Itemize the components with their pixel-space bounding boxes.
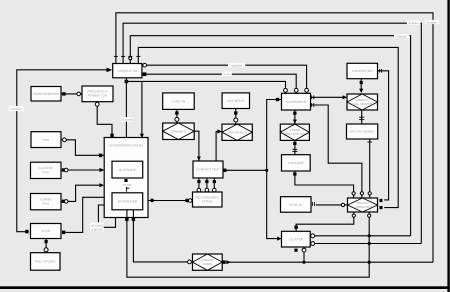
node square at avgn left input — [25, 230, 28, 234]
box CONSUME B14 — [282, 155, 311, 171]
wire governor left y205 to label loop into governor bottom — [98, 205, 106, 222]
circle at big diamond bottom pin2 — [368, 214, 371, 217]
wire cluster out1 (y235.8) to x410.6 rail — [310, 235, 410, 237]
box AVGN B6 — [31, 224, 62, 239]
square pin at pwumw right — [222, 260, 225, 264]
wire suspend left (y99.5) down rail x266.7 to cluster — [267, 100, 282, 239]
wire avgn bottom to pwl box — [45, 239, 47, 253]
circle at PSS right — [63, 138, 67, 142]
box STARTUP VN B8 — [113, 64, 142, 78]
svg-text:COMPACT TEST: COMPACT TEST — [196, 168, 220, 172]
circle at big diamond top pin3 — [368, 192, 371, 195]
label chip on feedback line1 — [425, 20, 440, 24]
arrow into governor top — [140, 134, 144, 139]
diamond VNX-GR-EL-D D2 — [222, 124, 252, 140]
wire top feedback 2 (y23: startup pin2 to x421 down to y243.5) — [123, 23, 421, 243]
wire suspend out1 (y97.3) to compact diamond left — [311, 96, 344, 98]
wire top feedback 3 (y36: startup pin3 to x410.6 down to y235.8) — [130, 36, 410, 236]
square pin at startup right out2 — [143, 72, 147, 76]
box PWRN DEMANDS B1 — [31, 87, 61, 102]
svg-text:CONTENT BIN: CONTENT BIN — [352, 69, 373, 73]
circle connector above governor inner box1 — [125, 156, 129, 160]
svg-text:STARTUP VN: STARTUP VN — [118, 69, 137, 73]
label chip a vn — [222, 72, 232, 76]
label chip PID added / pid NT — [90, 223, 104, 232]
box PID GAINS B16 — [193, 192, 223, 207]
label chip vcontrols (on x126.4 wire) — [120, 117, 133, 122]
circle at big diamond top pin2 — [360, 192, 363, 195]
box CLUSTER B18 — [282, 231, 311, 247]
wire suspend bottom to wait diamond — [294, 110, 296, 124]
circle connector on startup top pin3 — [129, 57, 132, 60]
wire consume bottom to big diamond top pin1 (y185) — [295, 171, 354, 198]
box governor inner IN STROKE — [112, 161, 143, 178]
box COMPACT TEST B15 — [193, 161, 223, 178]
svg-text:RVS: RVS — [43, 170, 49, 174]
svg-text:SUSPEND/CN: SUSPEND/CN — [286, 100, 306, 104]
junction dot y235.8/x369 — [368, 234, 371, 237]
svg-text:WAIT WTN GO: WAIT WTN GO — [285, 132, 306, 136]
wire lgrwn-pwu to governor (y201 up to y185) — [61, 185, 101, 201]
right window border — [447, 0, 449, 292]
circle connector at startup right out1 — [143, 63, 147, 67]
circle at freq box bottom — [95, 102, 99, 106]
wire cluster-rvs to governor (y170) — [61, 169, 101, 171]
box SUSPEND CONS B11 — [282, 93, 311, 110]
box CONTENT BIN B12 — [347, 63, 378, 78]
box FREQUENCY/POWER CON B2 — [82, 86, 113, 102]
wire suspend out2 (y105) jog to big diamond top pin2 — [311, 105, 362, 198]
svg-text:& pid NT: & pid NT — [91, 227, 102, 231]
svg-text:POWER CON: POWER CON — [88, 94, 107, 98]
svg-text:VNX SETUP: VNX SETUP — [227, 99, 245, 103]
svg-text:AVGN: AVGN — [41, 229, 50, 233]
diamond VN WAIT FOR WTN GO D3 — [280, 124, 309, 140]
big diamond right pin squares — [380, 199, 383, 202]
wire drop from y81.4 into governor top — [141, 81, 143, 134]
junction square under startup — [125, 80, 129, 83]
wire startup out2 (a vn, y74 to suspend top pin2) — [146, 74, 296, 93]
wire governor bottom pin1 to big diamond bottom (y277 loop) — [127, 212, 369, 277]
svg-text:CLUSTER: CLUSTER — [289, 238, 304, 242]
node square between governor inner boxes — [124, 179, 127, 182]
square pin at governor left y155 — [99, 154, 102, 158]
wire vote4u out to big diamond left pin — [316, 204, 348, 206]
wire content-bin out right down x388.6 to big diamond right pin1 — [378, 71, 389, 200]
wire content-bin bottom into compact diamond top — [360, 79, 362, 92]
wire compact-test out right to x266.7 rail — [225, 169, 266, 171]
circle at big diamond left pin — [341, 203, 344, 206]
box CLUSTER RVS B4 — [31, 162, 62, 178]
wire top feedback 4 (y47.5: startup pin4 to x398 down to diamond right pin2) — [138, 47, 398, 207]
diamond PWUMW CUMW D6 — [193, 254, 223, 270]
svg-text:CONSUME: CONSUME — [288, 161, 304, 165]
wire avgn right up into governor left (y197) — [65, 197, 107, 232]
svg-text:GOVERNOR/RV MODEL: GOVERNOR/RV MODEL — [108, 143, 143, 147]
box governor inner VN NODES — [112, 193, 143, 210]
wire left rail (x17 from y69.5 into startup + down to avgn) — [17, 70, 107, 232]
stubs from inner box2 to governor bottom — [126, 210, 128, 218]
arrow into cluster left — [277, 237, 281, 241]
label chip on feedback line3 — [394, 34, 410, 38]
circle at box2 left — [77, 92, 81, 96]
label chip combine (on left rail) — [9, 106, 24, 111]
diamond MTN GO D5 — [348, 198, 378, 212]
svg-text:CUMW: CUMW — [203, 262, 213, 266]
wire cluster out2 (y243.5) to x421.3 rail — [310, 243, 421, 245]
square pin on cluster bottom — [294, 249, 297, 252]
svg-text:regulator: regulator — [231, 63, 242, 67]
svg-text:s-swine: s-swine — [409, 21, 419, 25]
svg-text:vcontrols: vcontrols — [121, 118, 133, 122]
svg-text:PWL STROKN: PWL STROKN — [35, 260, 55, 264]
wire startup bottom pin down to governor inner box — [125, 78, 127, 161]
svg-text:VN FINISHED: VN FINISHED — [117, 200, 137, 204]
label chip regulator — [228, 63, 245, 67]
circle pin inside governor bottom — [114, 212, 117, 215]
wire load-vn pin down to diamond a — [176, 109, 178, 123]
wire label to governor bottom — [104, 218, 116, 228]
box VOTE 4U B17 — [281, 197, 312, 213]
svg-text:a vn: a vn — [224, 72, 230, 76]
svg-text:PWU: PWU — [42, 202, 49, 206]
wire wait-diamond bottom to consume — [294, 140, 296, 154]
wire PSS to governor (y139 jog y155.5) — [61, 140, 104, 156]
circle at pwumw diamond left — [188, 260, 192, 264]
wire box1 to box2 (y94) — [61, 93, 82, 95]
wire cluster bottom circle down to y262 — [303, 247, 305, 262]
square pin inside governor y197 — [107, 196, 110, 199]
svg-text:swines: swines — [397, 34, 406, 38]
wire vnx-setup pin down to vnx diamond — [235, 109, 237, 125]
svg-text:b swine: b swine — [427, 20, 437, 24]
svg-text:combine: combine — [11, 107, 22, 111]
box LGRWN PWU B5 — [31, 194, 62, 210]
svg-text:LOAD VN: LOAD VN — [172, 99, 186, 103]
svg-text:IN STROKE: IN STROKE — [119, 168, 136, 172]
box GOVERNOR outer B19 — [104, 138, 148, 218]
tick marks on startup top pins — [114, 55, 118, 57]
box PWL STROKN B7 — [31, 253, 61, 271]
wire diamond-a out right down into compact test top — [194, 131, 199, 161]
wire pwumw out right (y262) to x433 rail — [226, 261, 433, 263]
square pin at box1 right — [62, 92, 65, 95]
diamond COMPACT NON-CALL SRV D4 — [347, 94, 378, 110]
bottom window border bar — [0, 286, 450, 289]
wire top feedback 1 (y13: startup pin1 to x433 down to y262) — [116, 13, 433, 262]
arrow into governor left y185 — [100, 183, 105, 187]
arrow into startup left — [107, 68, 113, 73]
wire freq box bottom to governor top — [97, 105, 112, 138]
arrow into governor left y170 — [100, 168, 105, 172]
arrow on pwumw out wire — [226, 260, 231, 264]
svg-text:PWRN DEMANDS: PWRN DEMANDS — [33, 92, 59, 96]
square at governor top entry — [110, 134, 113, 137]
junction dot y243.5/x369 — [368, 242, 371, 245]
square+circle at PID box left — [185, 199, 188, 202]
circle pins on suspend box top — [284, 88, 288, 92]
junction dot x266.7/y170.3 — [265, 169, 268, 172]
box VNX SETUP B10 — [222, 93, 249, 109]
hook mark inside governor — [127, 187, 130, 192]
svg-text:XXX VN CONSEC: XXX VN CONSEC — [349, 130, 375, 134]
wire compact diamond bottom to consec box — [361, 110, 363, 124]
circle at big diamond top pin1 — [352, 192, 355, 195]
box LOAD VN B9 — [163, 93, 195, 110]
wire startup out1 (regulator, y65 to suspend top pin3) — [147, 65, 307, 93]
label chip on feedback line2 — [407, 21, 421, 25]
box XXX VN CONSEC B13 — [347, 124, 378, 139]
circle pin inside governor y205 — [107, 203, 111, 207]
wire big diamond bottom pin1 to cluster top (y224) — [296, 212, 354, 231]
svg-text:STROK: STROK — [202, 200, 214, 204]
wire consec box bottom to big diamond top pin3 — [369, 139, 371, 198]
svg-text:CALL SERVICE: CALL SERVICE — [352, 102, 373, 106]
svg-text:COMPLETE A: COMPLETE A — [353, 205, 372, 209]
tick at start of governor out — [151, 199, 154, 202]
wire branch y81.4 to suspend pin1 with drop into governor top — [126, 81, 285, 93]
wire pid/compact pin pair 1 — [198, 178, 200, 192]
diamond DEMAND A D1 — [163, 123, 195, 140]
wire pid/compact pin pair 2 — [206, 178, 208, 192]
junction dot y262/x369 — [368, 261, 371, 264]
junction dot y262/x304 — [302, 261, 305, 264]
svg-text:arrows: arrows — [123, 182, 132, 186]
svg-text:PSS: PSS — [43, 138, 49, 142]
wire pid/compact pin pair 3 — [213, 178, 215, 192]
wire compact-test top up into vnx diamond left — [216, 132, 217, 161]
wire governor bottom pin2 to pwumw diamond (y262) — [133, 218, 192, 262]
svg-text:VNX-GR-EL-D: VNX-GR-EL-D — [228, 130, 247, 134]
svg-text:VOTE 4U: VOTE 4U — [289, 203, 302, 207]
svg-text:DEMAND A: DEMAND A — [171, 129, 186, 133]
box PSS B3 — [31, 132, 61, 148]
wire governor out right to PID box (y200.5) — [148, 200, 193, 202]
